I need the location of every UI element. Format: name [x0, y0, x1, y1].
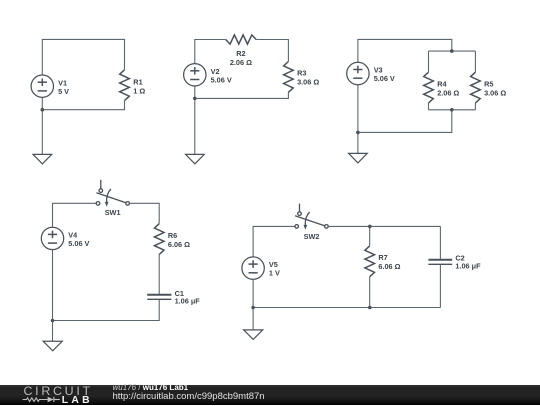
svg-text:1 V: 1 V [269, 269, 280, 278]
svg-text:6.06 Ω: 6.06 Ω [378, 262, 400, 271]
svg-text:5.06 V: 5.06 V [211, 75, 232, 84]
svg-text:3.06 Ω: 3.06 Ω [297, 78, 319, 87]
svg-text:SW2: SW2 [304, 232, 320, 241]
svg-text:5.06 V: 5.06 V [374, 74, 395, 83]
svg-text:R2: R2 [236, 49, 245, 58]
svg-text:5 V: 5 V [58, 87, 69, 96]
svg-text:2.06 Ω: 2.06 Ω [230, 58, 252, 67]
svg-text:5.06 V: 5.06 V [68, 239, 89, 248]
svg-text:3.06 Ω: 3.06 Ω [484, 88, 506, 97]
svg-text:R1: R1 [133, 77, 142, 86]
svg-text:2.06 Ω: 2.06 Ω [437, 88, 459, 97]
svg-text:SW1: SW1 [105, 208, 121, 217]
svg-text:R5: R5 [484, 79, 493, 88]
svg-text:1.06 μF: 1.06 μF [175, 297, 201, 306]
svg-text:6.06 Ω: 6.06 Ω [168, 240, 190, 249]
svg-text:R3: R3 [297, 69, 306, 78]
svg-text:R6: R6 [168, 231, 177, 240]
svg-text:R7: R7 [378, 253, 387, 262]
svg-text:1.06 μF: 1.06 μF [455, 262, 481, 271]
svg-text:1 Ω: 1 Ω [133, 86, 145, 95]
svg-text:R4: R4 [437, 79, 447, 88]
